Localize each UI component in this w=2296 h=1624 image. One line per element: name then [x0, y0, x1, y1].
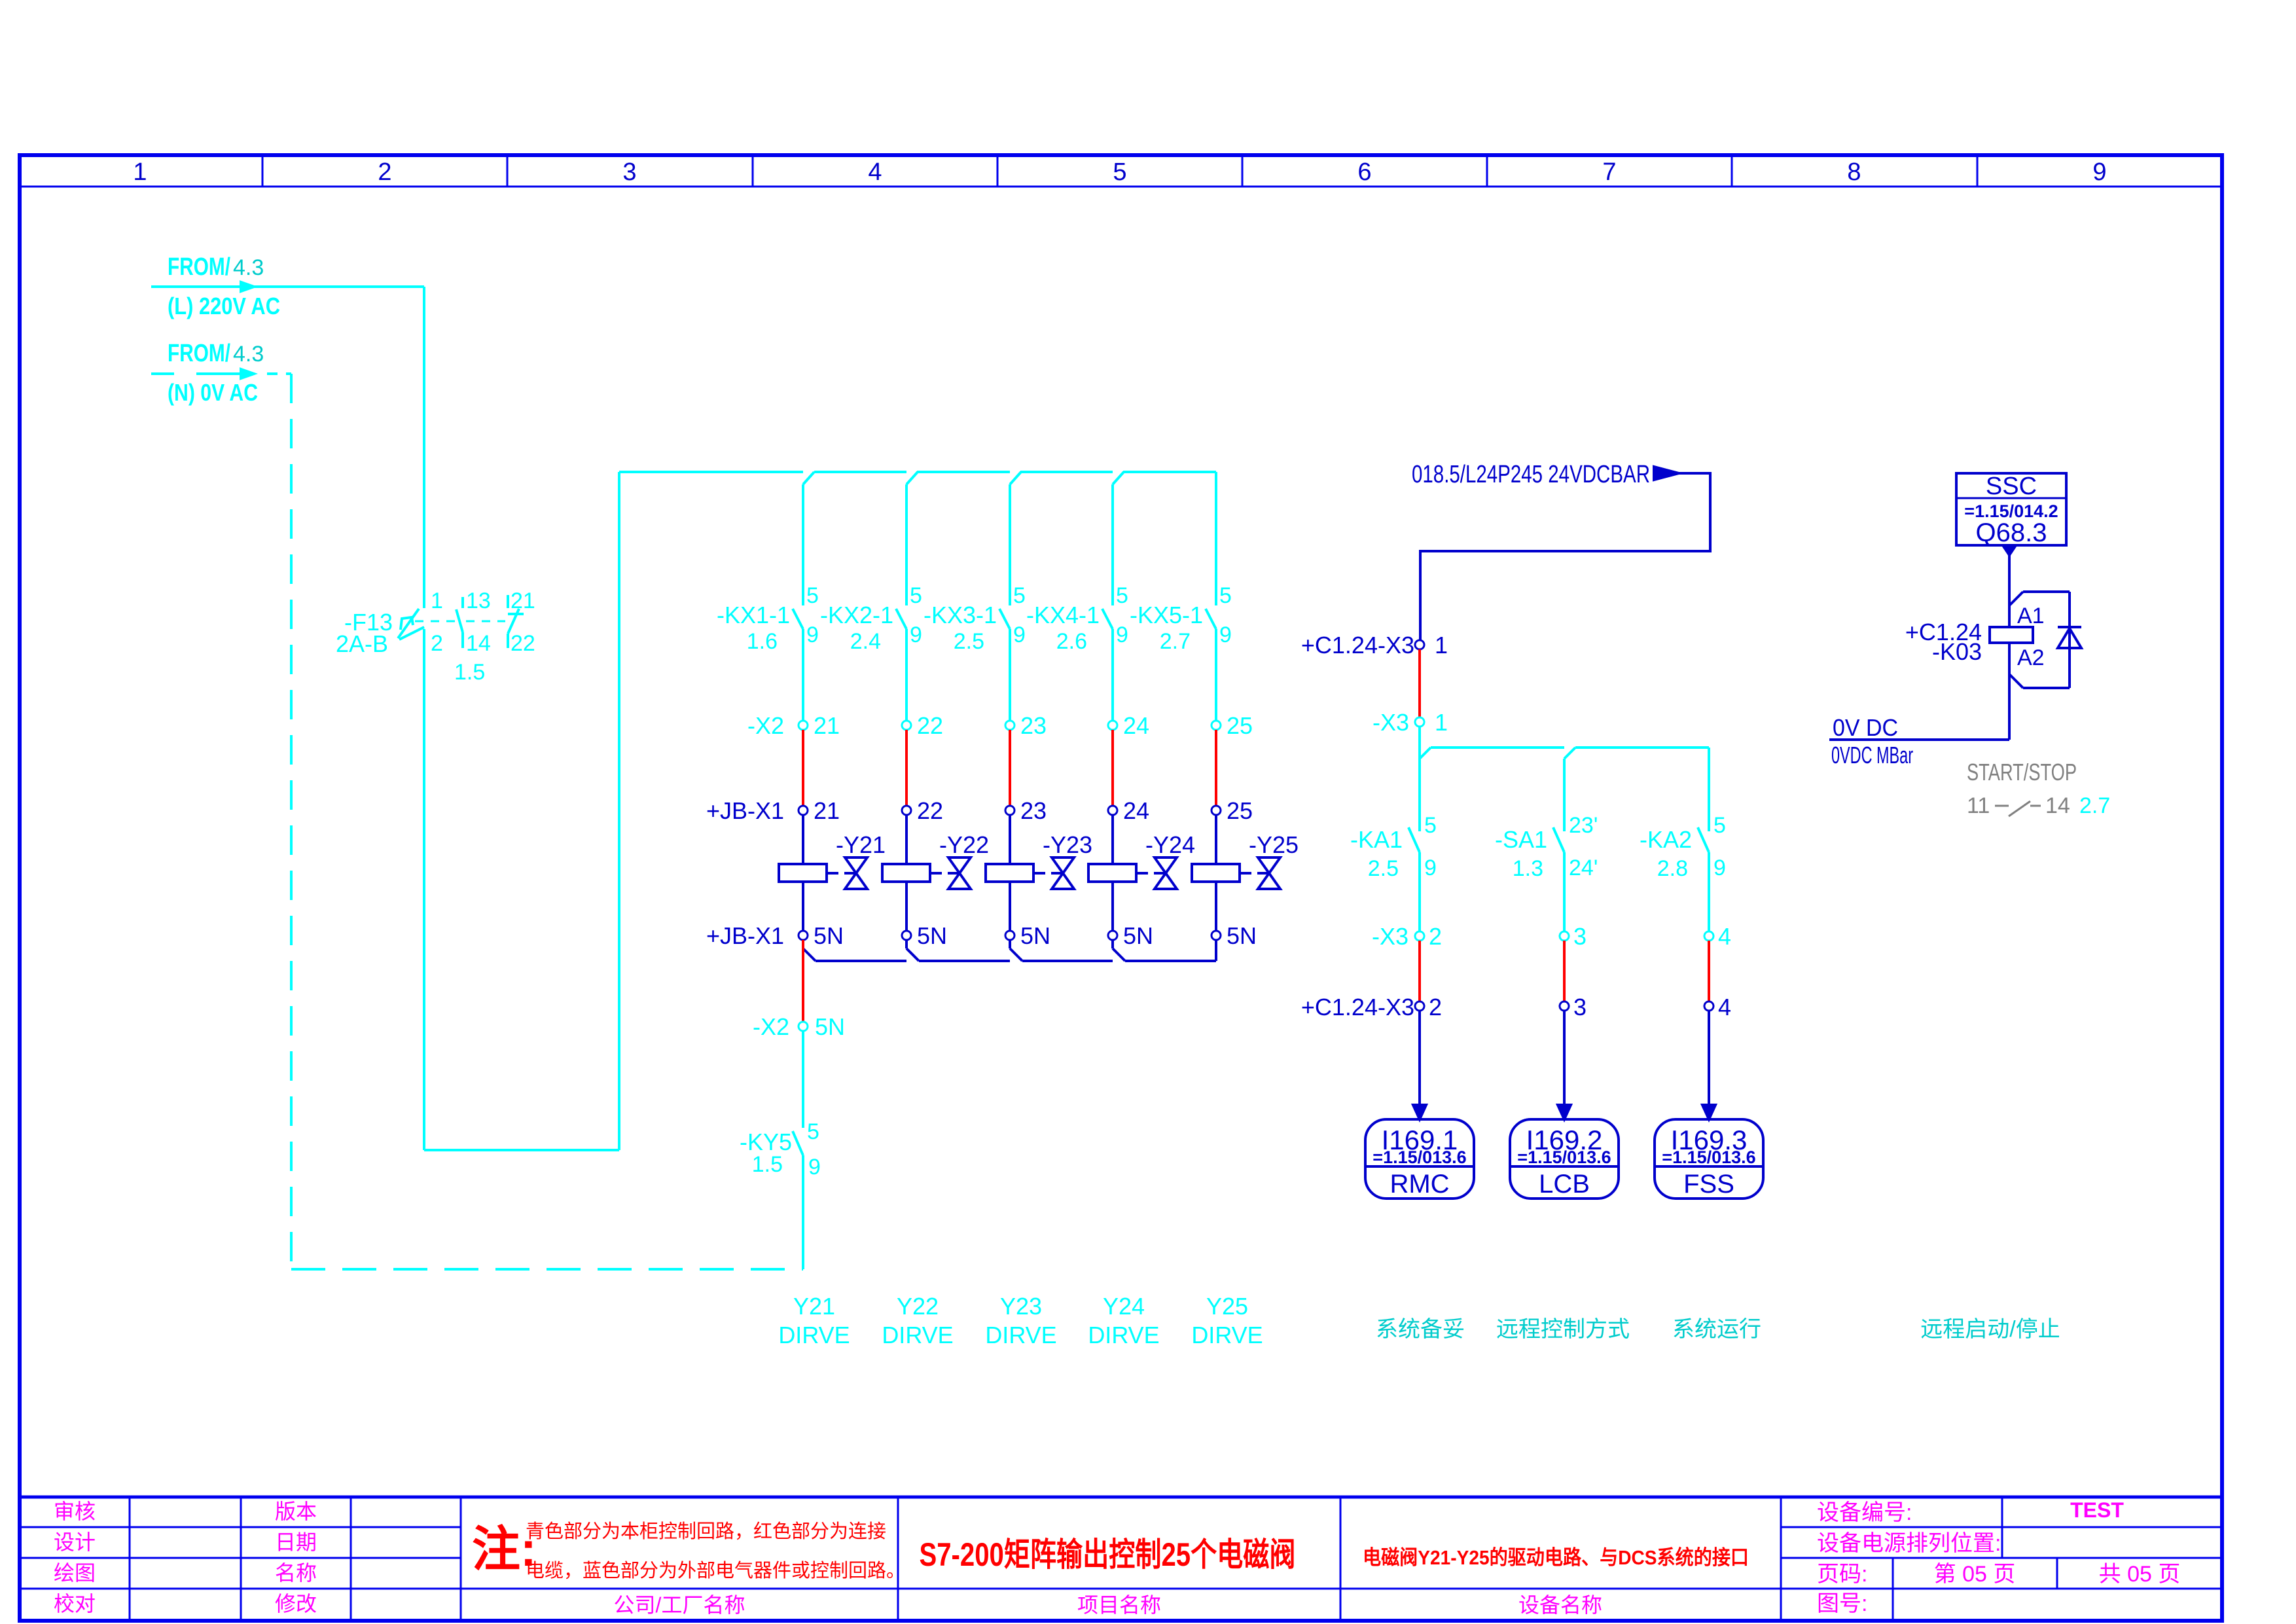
DCS input box I169.1 RMC	[1365, 1119, 1474, 1199]
wire N dashed horizontal	[291, 1268, 803, 1271]
terminal -X2:5N	[753, 1013, 845, 1040]
terminal -X2:21	[747, 712, 840, 739]
svg-text:远程控制方式: 远程控制方式	[1496, 1317, 1630, 1342]
svg-text:5: 5	[910, 583, 922, 608]
svg-text:2.7: 2.7	[2079, 793, 2110, 818]
svg-text:9: 9	[910, 623, 922, 647]
red cable wire to +JB-X1:24	[1111, 730, 1114, 806]
svg-text:-KX3-1: -KX3-1	[924, 602, 997, 628]
svg-text:RMC: RMC	[1390, 1170, 1449, 1199]
wire L 220V AC feeder with arrow	[151, 282, 424, 291]
svg-text:5: 5	[1713, 813, 1726, 838]
svg-text:+C1.24-X3: +C1.24-X3	[1301, 994, 1414, 1020]
svg-text:24: 24	[1123, 797, 1149, 824]
svg-text:2: 2	[1429, 923, 1442, 950]
svg-text:2: 2	[431, 631, 443, 656]
svg-text:21: 21	[511, 588, 535, 613]
svg-text:4: 4	[868, 158, 882, 186]
svg-text:9: 9	[2092, 158, 2106, 186]
svg-text:图号:: 图号:	[1817, 1591, 1867, 1616]
svg-text:-KX5-1: -KX5-1	[1130, 602, 1203, 628]
label 系统备妥	[1376, 1317, 1465, 1342]
svg-text:23': 23'	[1569, 813, 1598, 838]
terminal +JB-X1:23	[1005, 797, 1047, 824]
terminal +C1.24-X3:3	[1560, 994, 1587, 1020]
svg-text:2: 2	[378, 158, 391, 186]
terminal +C1.24-X3:1	[1301, 632, 1448, 659]
svg-text:+C1.24-X3: +C1.24-X3	[1301, 632, 1414, 659]
wire SSC to relay K03	[2008, 555, 2011, 627]
svg-text:13: 13	[466, 588, 491, 613]
label Y24 DIRVE	[1088, 1293, 1159, 1348]
svg-text:-X2: -X2	[753, 1013, 789, 1040]
wire coil Y25 to 5N	[1215, 882, 1217, 931]
net label FROM/4.3 (N)	[168, 340, 264, 367]
svg-text:4: 4	[1718, 994, 1731, 1020]
breaker F13 2A-B with aux contacts	[336, 588, 535, 685]
wire to solenoid Y21	[802, 815, 804, 864]
red cable wire to +JB-X1:25	[1215, 730, 1217, 806]
svg-text:7: 7	[1602, 158, 1616, 186]
svg-text:1: 1	[133, 158, 147, 186]
DCS input box I169.3 FSS	[1655, 1119, 1763, 1199]
svg-text:0V DC: 0V DC	[1833, 714, 1898, 741]
flyback diode across K03	[2058, 627, 2081, 648]
wire KY5 to N bus	[802, 1155, 804, 1269]
terminal -X3:3	[1560, 923, 1587, 950]
relay contact -KA2 (2.8)	[1640, 813, 1726, 931]
svg-text:9: 9	[1013, 623, 1026, 647]
svg-text:1: 1	[1435, 632, 1448, 659]
svg-text:3: 3	[622, 158, 636, 186]
svg-text:5: 5	[1113, 158, 1126, 186]
5N return bus	[803, 940, 1216, 961]
svg-text:3: 3	[1573, 923, 1587, 950]
red cable wire to +C1.24-X3:3	[1563, 941, 1566, 1001]
terminal +JB-X1:22	[902, 797, 943, 824]
svg-text:DIRVE: DIRVE	[882, 1322, 953, 1348]
solenoid valve coil -Y24	[1088, 831, 1195, 889]
svg-text:21: 21	[814, 712, 840, 739]
terminal +JB-X1:25	[1211, 797, 1253, 824]
svg-text:设计: 设计	[54, 1530, 96, 1554]
wire with arrow to DCS input	[1558, 1011, 1571, 1119]
net label (N) 0V AC	[168, 379, 258, 406]
label START/STOP	[1967, 759, 2077, 785]
terminal -X2:23	[1005, 712, 1047, 739]
svg-text:系统运行: 系统运行	[1672, 1317, 1761, 1342]
terminal -X2:22	[902, 712, 943, 739]
svg-text:5N: 5N	[917, 922, 947, 949]
svg-text:-Y24: -Y24	[1145, 831, 1195, 858]
svg-text:LCB: LCB	[1539, 1170, 1590, 1199]
wire coil Y23 to 5N	[1009, 882, 1011, 931]
wire with arrow to DCS input	[1413, 1011, 1426, 1119]
svg-text:5: 5	[1424, 813, 1437, 838]
svg-text:电磁阀Y21-Y25的驱动电路、与DCS系统的接口: 电磁阀Y21-Y25的驱动电路、与DCS系统的接口	[1363, 1546, 1749, 1569]
svg-text:018.5/L24P245 24VDCBAR: 018.5/L24P245 24VDCBAR	[1412, 461, 1650, 488]
wire -X2:5N to KY5	[802, 1031, 804, 1128]
svg-text:2A-B: 2A-B	[336, 630, 388, 657]
terminal +C1.24-X3:2	[1301, 994, 1442, 1020]
svg-text:Y21: Y21	[793, 1293, 835, 1320]
svg-text:3: 3	[1573, 994, 1587, 1020]
svg-text:2.7: 2.7	[1160, 629, 1191, 654]
label 远程启动/停止	[1920, 1317, 2060, 1342]
DCS output box SSC Q68.3	[1956, 473, 2066, 555]
svg-text:1: 1	[1435, 709, 1448, 736]
label Y21 DIRVE	[778, 1293, 850, 1348]
wire to solenoid Y25	[1215, 815, 1217, 864]
svg-text:=1.15/013.6: =1.15/013.6	[1517, 1147, 1611, 1167]
relay contact -KA1 (2.5)	[1350, 813, 1437, 931]
svg-text:-Y23: -Y23	[1043, 831, 1092, 858]
svg-text:22: 22	[917, 712, 943, 739]
svg-text:2: 2	[1429, 994, 1442, 1020]
svg-text:DIRVE: DIRVE	[1191, 1322, 1263, 1348]
label Y22 DIRVE	[882, 1293, 953, 1348]
terminal -X3:1	[1372, 709, 1448, 736]
terminal +JB-X1:5N branch 1	[706, 922, 844, 949]
svg-text:5N: 5N	[1123, 922, 1153, 949]
svg-text:2.6: 2.6	[1056, 629, 1087, 654]
svg-text:DIRVE: DIRVE	[778, 1322, 850, 1348]
wire coil Y22 to 5N	[905, 882, 908, 931]
svg-text:+JB-X1: +JB-X1	[706, 922, 784, 949]
svg-text:日期: 日期	[275, 1530, 317, 1554]
terminal +JB-X1:5N branch 3	[1005, 922, 1050, 949]
wire coil Y24 to 5N	[1111, 882, 1114, 931]
relay coil +C1.24-K03 A1/A2	[1905, 592, 2070, 688]
svg-text:校对: 校对	[54, 1592, 96, 1615]
terminal -X3:4	[1704, 923, 1731, 950]
svg-text:-KA2: -KA2	[1640, 826, 1692, 853]
wire coil Y21 to 5N	[802, 882, 804, 931]
svg-text:FROM/: FROM/	[168, 253, 230, 281]
svg-text:-Y22: -Y22	[939, 831, 989, 858]
label 远程控制方式	[1496, 1317, 1630, 1342]
relay contact -KX1-1 (1.6)	[717, 484, 819, 721]
svg-text:4.3: 4.3	[233, 342, 264, 367]
svg-text:2.4: 2.4	[850, 629, 881, 654]
wire 24VDCBAR feed with arrow	[1420, 467, 1710, 640]
svg-text:绘图: 绘图	[54, 1561, 96, 1585]
svg-text:8: 8	[1847, 158, 1861, 186]
wire bottom horizontal to riser	[424, 1149, 619, 1151]
svg-text:-X3: -X3	[1372, 923, 1408, 950]
svg-text:SSC: SSC	[1986, 473, 2037, 500]
svg-text:-K03: -K03	[1932, 638, 1982, 665]
svg-text:名称: 名称	[275, 1561, 317, 1585]
solenoid valve coil -Y23	[986, 831, 1092, 889]
terminal +C1.24-X3:4	[1704, 994, 1731, 1020]
svg-text:DIRVE: DIRVE	[985, 1322, 1056, 1348]
svg-text:-SA1: -SA1	[1495, 826, 1547, 853]
solenoid valve coil -Y22	[882, 831, 989, 889]
svg-text:电缆，蓝色部分为外部电气器件或控制回路。: 电缆，蓝色部分为外部电气器件或控制回路。	[526, 1560, 905, 1581]
wire to solenoid Y24	[1111, 815, 1114, 864]
cyan 24V sub-bus	[1420, 748, 1709, 831]
net label 0V DC	[1833, 714, 1898, 741]
svg-text:Y24: Y24	[1103, 1293, 1145, 1320]
label 系统运行	[1672, 1317, 1761, 1342]
svg-text:21: 21	[814, 797, 840, 824]
svg-text:START/STOP: START/STOP	[1967, 759, 2077, 785]
svg-text:5: 5	[1013, 583, 1026, 608]
svg-text:设备电源排列位置:: 设备电源排列位置:	[1817, 1531, 2001, 1556]
wire from F13 down	[423, 629, 425, 1150]
svg-text:2.5: 2.5	[1368, 856, 1399, 881]
red cable wire X3:1	[1418, 649, 1421, 717]
svg-text:5: 5	[1219, 583, 1232, 608]
wire K03 to 0V DC	[1829, 643, 2009, 740]
svg-text:Y25: Y25	[1206, 1293, 1248, 1320]
svg-text:1.3: 1.3	[1513, 856, 1543, 881]
svg-text:审核: 审核	[54, 1500, 96, 1523]
svg-text:设备编号:: 设备编号:	[1817, 1500, 1912, 1525]
red cable wire to +JB-X1:23	[1009, 730, 1011, 806]
terminal +JB-X1:5N branch 2	[902, 922, 947, 949]
svg-text:14: 14	[2045, 793, 2070, 818]
svg-text:(L) 220V AC: (L) 220V AC	[168, 293, 280, 319]
svg-text:4.3: 4.3	[233, 255, 264, 280]
svg-text:1.5: 1.5	[752, 1152, 783, 1177]
net label (L) 220V AC	[168, 293, 280, 319]
svg-text:-X2: -X2	[747, 712, 784, 739]
svg-text:1.5: 1.5	[454, 660, 485, 685]
red cable wire to +JB-X1:22	[905, 730, 908, 806]
label Y25 DIRVE	[1191, 1293, 1263, 1348]
svg-text:TEST: TEST	[2070, 1498, 2124, 1522]
wire N 0V AC feeder dashed with arrow	[151, 369, 291, 378]
svg-text:项目名称: 项目名称	[1077, 1593, 1161, 1617]
red cable wire to -X2:5N	[802, 940, 804, 1022]
svg-text:青色部分为本柜控制回路，红色部分为连接: 青色部分为本柜控制回路，红色部分为连接	[526, 1521, 886, 1542]
terminal +JB-X1:5N branch 5	[1211, 922, 1257, 949]
wire -X3:1 down to KA1	[1418, 727, 1421, 831]
relay contact -KY5 (1.5)	[740, 1119, 821, 1180]
svg-text:2.8: 2.8	[1657, 856, 1688, 881]
svg-text:S7-200矩阵输出控制25个电磁阀: S7-200矩阵输出控制25个电磁阀	[920, 1536, 1296, 1573]
svg-text:版本: 版本	[275, 1500, 317, 1523]
svg-text:9: 9	[1116, 623, 1128, 647]
svg-text:-KX4-1: -KX4-1	[1026, 602, 1100, 628]
red cable wire to +C1.24-X3:2	[1418, 941, 1421, 1001]
svg-text:公司/工厂名称: 公司/工厂名称	[614, 1593, 745, 1617]
relay contact -KX2-1 (2.4)	[820, 484, 922, 721]
svg-text:-KX1-1: -KX1-1	[717, 602, 790, 628]
svg-text:5N: 5N	[815, 1013, 845, 1040]
label Y23 DIRVE	[985, 1293, 1056, 1348]
svg-text:第 05 页: 第 05 页	[1934, 1562, 2016, 1587]
svg-text:9: 9	[806, 623, 819, 647]
red cable wire to +JB-X1:21	[802, 730, 804, 806]
svg-text:A2: A2	[2017, 645, 2045, 670]
svg-text:9: 9	[808, 1155, 821, 1180]
svg-text:远程启动/停止: 远程启动/停止	[1920, 1317, 2060, 1342]
svg-text:5: 5	[806, 583, 819, 608]
remote start/stop contact 11-14 (2.7)	[1967, 793, 2110, 818]
net label 0VDC MBar	[1831, 742, 1913, 768]
wire to solenoid Y22	[905, 815, 908, 864]
svg-text:A1: A1	[2017, 604, 2045, 628]
svg-text:2.5: 2.5	[954, 629, 984, 654]
svg-text:DIRVE: DIRVE	[1088, 1322, 1159, 1348]
wire with arrow to DCS input	[1702, 1011, 1715, 1119]
svg-text:(N) 0V AC: (N) 0V AC	[168, 379, 258, 406]
svg-text:5: 5	[1116, 583, 1128, 608]
svg-text:5N: 5N	[1227, 922, 1257, 949]
svg-text:=1.15/013.6: =1.15/013.6	[1372, 1147, 1466, 1167]
wire N dashed vertical	[290, 374, 293, 1269]
solenoid valve coil -Y21	[779, 831, 886, 889]
terminal -X2:24	[1108, 712, 1149, 739]
svg-text:系统备妥: 系统备妥	[1376, 1317, 1465, 1342]
svg-text:Y22: Y22	[897, 1293, 939, 1320]
svg-text:-KX2-1: -KX2-1	[820, 602, 893, 628]
svg-text:4: 4	[1718, 923, 1731, 950]
svg-text:0VDC MBar: 0VDC MBar	[1831, 742, 1913, 768]
svg-text:-KY5: -KY5	[740, 1128, 792, 1155]
svg-text:14: 14	[466, 631, 491, 656]
svg-text:23: 23	[1020, 797, 1047, 824]
svg-text:1: 1	[431, 588, 443, 613]
terminal +JB-X1:5N branch 4	[1108, 922, 1153, 949]
svg-text:24': 24'	[1569, 856, 1598, 880]
svg-text:-Y25: -Y25	[1249, 831, 1299, 858]
svg-text:页码:: 页码:	[1817, 1562, 1867, 1587]
relay contact -KX5-1 (2.7)	[1130, 472, 1232, 721]
svg-text:-KA1: -KA1	[1350, 826, 1403, 853]
terminal +JB-X1:24	[1108, 797, 1149, 824]
DCS input box I169.2 LCB	[1510, 1119, 1619, 1199]
svg-text:=1.15/013.6: =1.15/013.6	[1662, 1147, 1755, 1167]
wire L down to breaker F13	[423, 287, 425, 608]
svg-text:1.6: 1.6	[747, 629, 778, 654]
svg-text:修改: 修改	[275, 1592, 317, 1615]
svg-text:22: 22	[511, 631, 535, 656]
svg-text:9: 9	[1219, 623, 1232, 647]
svg-text:+JB-X1: +JB-X1	[706, 797, 784, 824]
svg-text:25: 25	[1227, 712, 1253, 739]
solenoid valve coil -Y25	[1192, 831, 1299, 889]
terminal +JB-X1:21	[706, 797, 840, 824]
wire riser up to bus	[618, 472, 620, 1150]
svg-text:5: 5	[807, 1119, 819, 1144]
svg-text:Q68.3: Q68.3	[1976, 518, 2047, 547]
svg-text:FROM/: FROM/	[168, 340, 230, 367]
svg-text:5N: 5N	[1020, 922, 1050, 949]
terminal -X2:25	[1211, 712, 1253, 739]
svg-text:共 05 页: 共 05 页	[2099, 1562, 2181, 1587]
svg-text:6: 6	[1357, 158, 1371, 186]
svg-text:9: 9	[1424, 856, 1437, 880]
wire to solenoid Y23	[1009, 815, 1011, 864]
terminal -X3:2	[1372, 923, 1442, 950]
svg-text:25: 25	[1227, 797, 1253, 824]
svg-text:5N: 5N	[814, 922, 844, 949]
svg-text:设备名称: 设备名称	[1518, 1593, 1602, 1617]
svg-text:-Y21: -Y21	[836, 831, 886, 858]
svg-text:Y23: Y23	[1000, 1293, 1042, 1320]
net label FROM/4.3 (L)	[168, 253, 264, 281]
relay contact -KX4-1 (2.6)	[1026, 484, 1128, 721]
relay contact -KX3-1 (2.5)	[924, 484, 1026, 721]
svg-text:23: 23	[1020, 712, 1047, 739]
svg-text:FSS: FSS	[1683, 1170, 1734, 1199]
svg-text:11: 11	[1967, 793, 1990, 818]
svg-text:22: 22	[917, 797, 943, 824]
relay contact -SA1 (1.3)	[1495, 813, 1598, 931]
svg-text:24: 24	[1123, 712, 1149, 739]
svg-text:9: 9	[1713, 856, 1726, 880]
net label 018.5/L24P245 24VDCBAR	[1412, 461, 1650, 488]
svg-text:-X3: -X3	[1372, 709, 1409, 736]
red cable wire to +C1.24-X3:4	[1708, 941, 1710, 1001]
cyan 220V bus	[619, 472, 1216, 484]
